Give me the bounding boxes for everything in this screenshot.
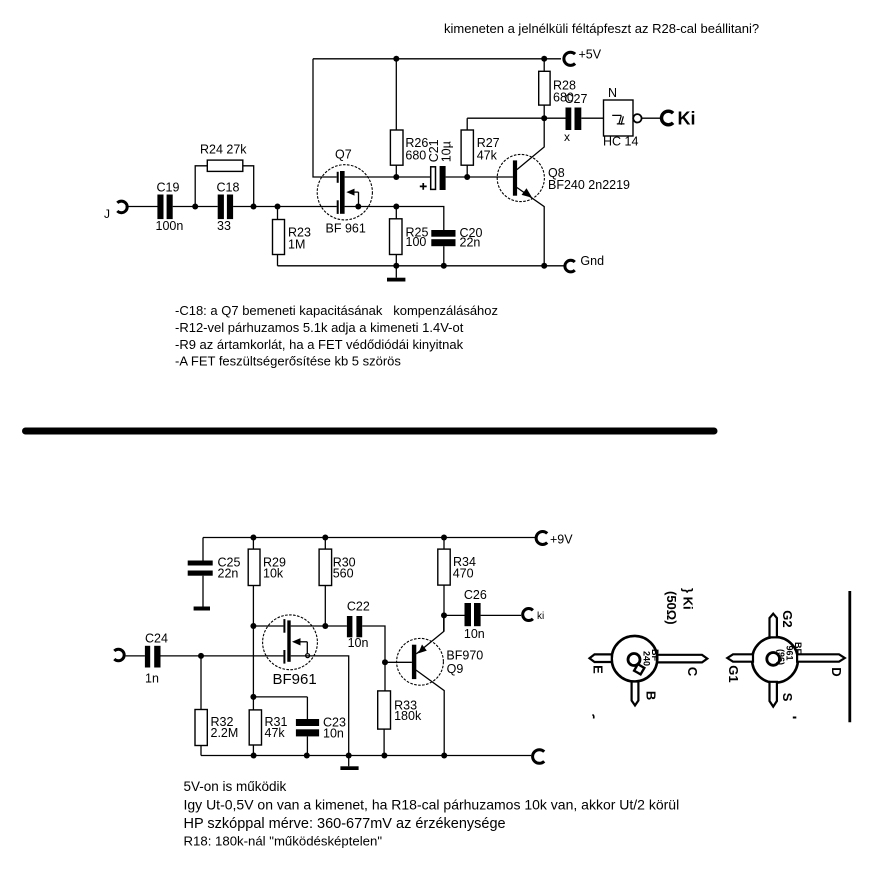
wire J to C19 (126, 206, 158, 208)
wire Q7b drain to C22 (291, 625, 347, 627)
svg-text:22n: 22n (218, 567, 239, 581)
resistor R24 27k (195, 143, 254, 207)
resistor R26 680 (390, 59, 428, 177)
wire input to C24 (126, 655, 145, 657)
node B2 (R30 top) (322, 535, 328, 541)
node N3 (R30 bottom / drain) (322, 623, 328, 629)
node S1 (R25 top) (393, 204, 399, 210)
svg-text:47k: 47k (265, 726, 286, 740)
svg-text:R24 27k: R24 27k (200, 143, 247, 157)
svg-text:180k: 180k (394, 709, 422, 723)
pin D lead (797, 654, 845, 661)
svg-text:2.2M: 2.2M (211, 726, 239, 740)
connector +5V (564, 48, 602, 66)
wire C19 to C18 (173, 206, 218, 208)
svg-text:BF961: BF961 (273, 671, 317, 688)
svg-text:-R9 az ártamkorlát, ha a FET v: -R9 az ártamkorlát, ha a FET védődiódái … (175, 337, 464, 352)
wire +5V rail (313, 58, 561, 60)
node B4 (R34 bottom / C26) (441, 612, 447, 618)
svg-text:G2: G2 (780, 610, 795, 627)
connector Ki (661, 109, 695, 129)
svg-text:Ki: Ki (678, 109, 696, 129)
capacitor C27 (564, 92, 587, 144)
svg-text:HP szkóppal mérve: 360-677mV a: HP szkóppal mérve: 360-677mV az érzékeny… (184, 816, 506, 832)
node B3 (R34 top) (441, 535, 447, 541)
svg-text:HC 14: HC 14 (603, 135, 638, 149)
wire ground rail top circuit (278, 265, 564, 267)
node R2 (C23 bottom) (304, 753, 310, 759)
connector +9V (536, 532, 573, 547)
svg-text:5V-on is működik: 5V-on is működik (184, 779, 287, 794)
pinout package BF240 (590, 636, 708, 706)
svg-text:10n: 10n (323, 727, 344, 741)
node C1 (R28 bottom / Q8 collector) (541, 115, 547, 121)
wire collector node line (467, 117, 565, 119)
svg-text:10µ: 10µ (440, 141, 454, 162)
ground symbol top circuit (387, 266, 405, 282)
svg-text:100n: 100n (156, 219, 184, 233)
svg-text:ki: ki (537, 611, 544, 622)
svg-text:C22: C22 (347, 600, 370, 614)
transistor Q8 BF240 (497, 118, 630, 266)
svg-text:S: S (780, 693, 795, 702)
capacitor C23 10n (253, 697, 346, 756)
node N2 (R31/C23 junction) (250, 694, 256, 700)
node T2 (R28 top) (541, 56, 547, 62)
node N4 (R33 top / Q9 base) (382, 659, 388, 665)
svg-text:kimeneten a jelnélküli féltápf: kimeneten a jelnélküli féltápfeszt az R2… (444, 21, 759, 36)
svg-text:-C18: a Q7 bemeneti kapacitásá: -C18: a Q7 bemeneti kapacitásának kompen… (175, 303, 498, 318)
wire bottom rail (201, 755, 531, 757)
wire C18 to Q7 gate1 (233, 206, 337, 208)
node J2 (R24 right) (251, 204, 257, 210)
node G2 (C20 bottom) (441, 263, 447, 269)
connector Gnd (565, 254, 604, 272)
svg-text:560: 560 (333, 567, 354, 581)
wire C21 to Q8 base (446, 176, 513, 178)
resistor R33 180k (378, 662, 422, 755)
bottom notes text block (184, 779, 680, 849)
svg-text:Q9: Q9 (447, 662, 464, 676)
node D2 (R27 bottom) (464, 174, 470, 180)
svg-text:-A FET feszültségerősítése kb: -A FET feszültségerősítése kb 5 szörös (175, 354, 401, 369)
resistor R31 47k (249, 710, 287, 756)
svg-text:G1: G1 (726, 665, 741, 682)
wire C24 to gate1 (161, 655, 284, 657)
svg-text:C24: C24 (145, 632, 168, 646)
svg-text:240: 240 (642, 651, 652, 666)
wire Q7 drain to C21 (345, 176, 431, 178)
package tab (634, 664, 644, 674)
svg-text:C19: C19 (157, 181, 180, 195)
small mark left (593, 715, 594, 719)
wire inverter to Ki (642, 117, 661, 119)
svg-text:B: B (644, 691, 659, 700)
svg-text:Gnd: Gnd (580, 254, 604, 268)
ground symbol C25 (194, 607, 210, 611)
svg-text:N: N (608, 86, 617, 100)
svg-text:} Ki: } Ki (681, 588, 696, 610)
svg-text:Q7: Q7 (335, 148, 352, 162)
svg-text:+9V: +9V (550, 533, 573, 547)
svg-text:E: E (591, 665, 606, 674)
divider bar (26, 428, 715, 435)
node R4 (R33 bottom) (381, 753, 387, 759)
wire Q7b source down (291, 656, 349, 756)
svg-text:BF240 2n2219: BF240 2n2219 (548, 178, 630, 192)
pinout package BF961 (726, 610, 845, 706)
svg-text:1n: 1n (145, 672, 159, 686)
resistor R25 100 (390, 207, 429, 266)
wire Q7 gate2 feed from +5V rail (313, 59, 337, 177)
node R1 (R31 bottom) (251, 753, 257, 759)
svg-text:C: C (685, 667, 700, 677)
node R5 (Q9 emitter lead) (441, 753, 447, 759)
svg-text:100: 100 (406, 235, 427, 249)
connector ki (523, 609, 545, 622)
transistor Q7b BF961 bottom (263, 615, 318, 688)
svg-text:10k: 10k (263, 567, 284, 581)
transistor Q7 BF961 dual-gate MOSFET (317, 148, 372, 236)
resistor R23 1M (273, 207, 311, 266)
node T1 (R26 top) (393, 56, 399, 62)
ground symbol bottom circuit (340, 756, 358, 771)
pin G2 lead (770, 614, 777, 638)
svg-text:C27: C27 (565, 92, 588, 106)
node G3 (Q8 emitter) (541, 263, 547, 269)
svg-text:x: x (564, 130, 570, 144)
transistor Q9 BF970 (397, 615, 484, 755)
small mark right (793, 717, 797, 719)
node N5 (R32 top) (198, 653, 204, 659)
svg-text:D: D (829, 667, 844, 676)
resistor R34 470 (438, 538, 476, 632)
svg-text:(50Ω): (50Ω) (664, 591, 679, 625)
wire base Q9 (385, 661, 412, 663)
connector input bottom (114, 649, 124, 661)
wire C22 to Q9 base (362, 626, 385, 662)
node N1 (R29/G2 junction) (250, 623, 256, 629)
resistor R27 47k (461, 118, 500, 177)
resistor R29 10k (248, 538, 286, 710)
node J3 (R23 top) (275, 204, 281, 210)
capacitor C25 22n (188, 538, 241, 607)
svg-text:33: 33 (217, 219, 231, 233)
pin G1 lead (727, 654, 753, 661)
resistor R32 2.2M (195, 656, 238, 756)
node R3 (source lead) (346, 753, 352, 759)
wire +9V rail (203, 537, 535, 539)
resistor R28 680 (539, 59, 576, 118)
capacitor C26 10n (444, 588, 521, 641)
resistor R30 560 (319, 538, 356, 627)
svg-text:R18: 180k-nál "működésképtelen: R18: 180k-nál "működésképtelen" (184, 834, 383, 849)
wire C27 to inverter (581, 117, 603, 119)
pin E lead (590, 654, 612, 662)
capacitor C24 1n (145, 632, 168, 686)
wire Q7 source to C20 (345, 207, 444, 231)
svg-text:1M: 1M (288, 238, 305, 252)
notes text block top circuit (175, 303, 498, 369)
svg-text:C26: C26 (464, 588, 487, 602)
scan edge line (848, 591, 851, 722)
svg-text:(96): (96) (776, 649, 786, 665)
svg-text:C18: C18 (217, 181, 240, 195)
node J1 (C19/C18/R24) (192, 204, 198, 210)
pin C lead (657, 655, 707, 663)
pin S lead (770, 682, 777, 707)
svg-text:47k: 47k (477, 148, 498, 162)
svg-text:470: 470 (453, 567, 474, 581)
svg-text:10n: 10n (464, 627, 485, 641)
capacitor C20 22n (431, 226, 482, 266)
svg-text:Igy Ut-0,5V on van a kimenet,: Igy Ut-0,5V on van a kimenet, ha R18-cal… (184, 797, 680, 813)
connector rail end bottom (533, 750, 545, 764)
pin B lead (632, 682, 639, 706)
inverter U1 HC14 schmitt (603, 86, 642, 149)
capacitor C21 10u electrolytic (420, 139, 454, 190)
svg-text:J: J (104, 207, 110, 221)
node Q7 source dot (355, 204, 361, 210)
wire R29 node to gate2 (253, 625, 283, 627)
svg-text:10n: 10n (348, 636, 369, 650)
capacitor C18 33 (217, 181, 240, 234)
connector J (input) (104, 201, 127, 221)
node G1 (R25 bottom / ground) (393, 263, 399, 269)
svg-text:-R12-vel párhuzamos 5.1k adja: -R12-vel párhuzamos 5.1k adja a kimeneti… (175, 320, 464, 335)
node B1 (R29 top) (250, 535, 256, 541)
svg-text:+5V: +5V (579, 48, 602, 62)
svg-text:BF970: BF970 (446, 648, 483, 662)
svg-text:22n: 22n (460, 236, 481, 250)
svg-text:680: 680 (405, 148, 426, 162)
svg-text:BF 961: BF 961 (326, 222, 366, 236)
node D1 (R26 bottom) (393, 174, 399, 180)
capacitor C22 10n (347, 600, 370, 651)
capacitor C19 100n (156, 181, 184, 234)
